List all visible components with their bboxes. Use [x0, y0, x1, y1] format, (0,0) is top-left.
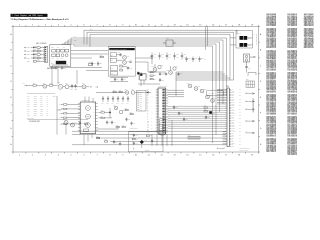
- choke 5501 black body: [240, 36, 251, 40]
- transistor 7602: [123, 56, 130, 60]
- capacitor 2406: [111, 121, 116, 125]
- svg-text:VDD: VDD: [27, 115, 30, 117]
- capacitor 2621: [185, 57, 190, 63]
- svg-text:CD DRIVE UNIT: CD DRIVE UNIT: [29, 121, 40, 123]
- svg-text:3520: 3520: [246, 79, 249, 81]
- signal name table: [27, 94, 56, 117]
- svg-text:5V: 5V: [47, 108, 49, 110]
- svg-text:B6: B6: [274, 113, 276, 115]
- svg-text:1: 1: [19, 25, 20, 27]
- svg-text:12: 12: [161, 25, 163, 27]
- svg-text:6603: 6603: [111, 73, 114, 75]
- parts index column 2: [287, 14, 297, 156]
- svg-text:C5: C5: [274, 151, 276, 153]
- svg-text:2302: 2302: [75, 89, 78, 91]
- wire: [138, 80, 160, 86]
- svg-text:RST: RST: [40, 100, 43, 102]
- svg-text:2626 71803: 2626 71803: [266, 151, 274, 153]
- transistor 7422: [131, 89, 135, 94]
- relay 1601 box: [163, 38, 176, 46]
- label bus signals: [74, 28, 93, 42]
- resistor 3423: [125, 108, 129, 111]
- wire bus top 3: [90, 34, 230, 80]
- capacitor 2611: [151, 53, 157, 60]
- svg-text:SCL: SCL: [40, 98, 43, 100]
- svg-text:KEY0: KEY0: [34, 95, 38, 97]
- svg-text:11: 11: [148, 25, 150, 27]
- resistor 3205: [27, 60, 45, 63]
- capacitor 2615: [177, 73, 182, 76]
- wire output standby: [135, 62, 148, 72]
- capacitor 2302: [74, 84, 77, 91]
- svg-text:+9V: +9V: [204, 59, 206, 61]
- wire bus mid: [176, 72, 234, 96]
- wire into driver top: [85, 97, 93, 103]
- svg-text:3125 95318: 3125 95318: [287, 69, 295, 71]
- wire: [50, 66, 102, 68]
- svg-text:KEY3: KEY3: [34, 102, 38, 104]
- resistor 3503: [150, 79, 156, 81]
- svg-text:TRK: TRK: [140, 94, 142, 96]
- capacitor 2622: [192, 57, 197, 63]
- svg-text:1504: 1504: [159, 117, 162, 119]
- transistor 7302: [57, 82, 62, 89]
- capacitor 2502: [159, 78, 164, 82]
- svg-text:P13: P13: [27, 110, 30, 112]
- svg-text:6: 6: [84, 25, 85, 27]
- capacitor 2222: [97, 62, 102, 67]
- svg-text:KEY1: KEY1: [34, 98, 38, 100]
- svg-text:STB: STB: [40, 106, 43, 108]
- svg-text:7304: 7304: [82, 83, 85, 85]
- svg-text:7612: 7612: [161, 64, 164, 66]
- wire driver outputs down: [84, 134, 92, 144]
- svg-text:STBY: STBY: [90, 28, 93, 30]
- wire: [57, 125, 80, 135]
- capacitor 3612: [181, 53, 187, 60]
- rectifier 6601: [110, 58, 116, 62]
- capacitor 2201: [51, 66, 57, 70]
- svg-text:16: 16: [212, 155, 214, 157]
- resistor 3302: [47, 83, 58, 86]
- diode 6221: [88, 61, 92, 65]
- capacitor 2202: [61, 66, 66, 70]
- line filter box: [236, 31, 253, 49]
- svg-text:7515: 7515: [214, 98, 217, 100]
- jack 1901: [244, 54, 254, 62]
- svg-text:7512: 7512: [198, 86, 201, 88]
- off-page arrow right: [250, 56, 256, 58]
- capacitor 2521: [173, 106, 178, 110]
- capacitor 2402: [106, 96, 109, 104]
- wire bus into pins: [213, 72, 227, 143]
- op-amp driver IC 7401: [78, 99, 98, 134]
- svg-text:G6: G6: [312, 47, 314, 49]
- transistor 7513: [200, 88, 207, 93]
- capacitor 2423: [125, 118, 130, 122]
- IC 7502 box: [138, 72, 148, 80]
- resistor network 3520: [246, 79, 254, 87]
- resistor 3451: [96, 136, 100, 139]
- resistor 3201: [37, 47, 45, 51]
- zener diode 6602: [129, 59, 132, 63]
- resistor 3452: [104, 139, 108, 142]
- diode 6203: [27, 51, 37, 56]
- svg-text:POWER CORD 220V: POWER CORD 220V: [255, 34, 257, 46]
- off-page arrow: [245, 108, 255, 111]
- wire: [57, 96, 61, 126]
- svg-text:15: 15: [199, 155, 201, 157]
- wire bottom bus: [72, 131, 226, 145]
- svg-text:7: 7: [96, 155, 97, 157]
- svg-text:CLK: CLK: [40, 102, 43, 104]
- transistor 7612: [158, 64, 164, 68]
- wire: [116, 55, 126, 67]
- resistor 3501: [150, 72, 156, 74]
- svg-text:6602: 6602: [129, 59, 132, 61]
- crystal box 1503: [207, 90, 224, 96]
- svg-text:2601: 2601: [118, 52, 121, 54]
- svg-text:19: 19: [251, 155, 253, 157]
- svg-text:2612: 2612: [161, 54, 164, 56]
- svg-text:6204: 6204: [27, 58, 30, 60]
- svg-text:12: 12: [161, 155, 163, 157]
- transistor 7432: [71, 122, 77, 127]
- capacitor 2522: [178, 112, 183, 116]
- wire: [248, 73, 256, 77]
- svg-text:3302: 3302: [49, 83, 52, 85]
- capacitor 2512: [205, 116, 210, 120]
- wire bus top 2: [87, 32, 234, 80]
- capacitor 2614: [163, 73, 168, 76]
- svg-text:4: 4: [58, 25, 59, 27]
- svg-text:MUT: MUT: [40, 110, 43, 112]
- wire: [134, 144, 142, 149]
- svg-text:5V: 5V: [47, 104, 49, 106]
- svg-text:9: 9: [122, 25, 123, 27]
- svg-text:play mode, disc 5": play mode, disc 5": [240, 150, 250, 152]
- svg-text:7602: 7602: [127, 56, 130, 58]
- resistor 3403: [60, 113, 81, 115]
- capacitor 2404: [126, 96, 129, 104]
- capacitor 2607: [121, 78, 126, 82]
- svg-text:2: 2: [32, 155, 33, 157]
- svg-text:18: 18: [238, 25, 240, 27]
- resistor 3422: [119, 89, 123, 92]
- svg-text:16: 16: [212, 25, 214, 27]
- transistor 7511: [187, 82, 192, 88]
- capacitor 2523: [183, 118, 188, 122]
- svg-text:F8: F8: [274, 47, 276, 49]
- svg-text:4: 4: [58, 155, 59, 157]
- resistor 3301: [33, 83, 43, 86]
- label input arrow: [23, 83, 28, 86]
- svg-text:MOT: MOT: [140, 98, 143, 100]
- wire: [71, 51, 109, 59]
- wire: [52, 66, 89, 87]
- svg-text:10: 10: [135, 25, 137, 27]
- wire: [230, 38, 253, 45]
- resistor 3421: [113, 89, 117, 92]
- svg-text:F2: F2: [274, 91, 276, 93]
- junction node: [109, 112, 111, 114]
- off-page arrow: [245, 119, 255, 122]
- capacitor 2424: [130, 122, 135, 126]
- capacitor 2301: [70, 84, 73, 91]
- svg-text:5577 39062: 5577 39062: [287, 113, 295, 115]
- transistor 7301: [43, 82, 47, 88]
- transistor 7611: [151, 66, 157, 71]
- svg-text:3: 3: [45, 25, 46, 27]
- svg-text:15: 15: [199, 25, 201, 27]
- svg-text:LED1: LED1: [34, 106, 37, 108]
- svg-text:18: 18: [238, 155, 240, 157]
- svg-text:7431: 7431: [62, 119, 65, 121]
- svg-text:7303: 7303: [65, 83, 68, 85]
- capacitor 2612: [158, 53, 164, 60]
- wire bus top 1: [84, 30, 237, 44]
- svg-text:3401: 3401: [60, 104, 63, 106]
- wire harness to connector: [168, 89, 227, 145]
- svg-text:13: 13: [173, 25, 175, 27]
- note under connector: [240, 147, 251, 152]
- svg-text:7.2 Key Diagrams CD-Mechanism: 7.2 Key Diagrams CD-Mechanism — Main Boa…: [11, 18, 70, 21]
- svg-text:6: 6: [84, 155, 85, 157]
- capacitor 2501: [159, 72, 164, 76]
- svg-text:3413: 3413: [122, 125, 125, 127]
- svg-text:F8: F8: [295, 25, 297, 27]
- polarized capacitor 2511: [209, 111, 215, 114]
- svg-text:LED3: LED3: [34, 110, 37, 112]
- diode 6204: [27, 55, 37, 60]
- capacitor 2613: [173, 53, 179, 60]
- svg-text:LRC: LRC: [40, 113, 43, 115]
- svg-text:P00: P00: [27, 95, 30, 97]
- svg-text:SEN: SEN: [40, 108, 43, 110]
- wire bus 8: [74, 45, 213, 72]
- label +B net: [90, 86, 99, 88]
- svg-text:7529 90625: 7529 90625: [287, 91, 295, 93]
- svg-text:0V: 0V: [47, 102, 49, 104]
- svg-text:KEY2: KEY2: [34, 100, 38, 102]
- svg-text:6601: 6601: [111, 60, 114, 62]
- svg-text:DEM: DEM: [34, 113, 37, 115]
- svg-text:7432: 7432: [74, 122, 77, 124]
- IC 7201 interface box: [50, 45, 71, 67]
- resistor 3221: [100, 54, 104, 57]
- wire: [27, 85, 33, 87]
- svg-text:9: 9: [122, 155, 123, 157]
- svg-text:E5: E5: [274, 69, 276, 71]
- connector 1201 keyboard: [43, 46, 48, 62]
- svg-text:17: 17: [225, 25, 227, 27]
- svg-text:G9: G9: [312, 25, 314, 27]
- transistor 7304: [82, 83, 86, 89]
- capacitor 2401: [101, 96, 104, 104]
- input arrows keyboard rows: [24, 47, 26, 59]
- svg-text:13: 13: [173, 155, 175, 157]
- svg-text:7511: 7511: [187, 82, 190, 84]
- label mains: [237, 32, 255, 37]
- svg-text:and: and: [29, 15, 32, 17]
- svg-text:6202: 6202: [27, 51, 30, 53]
- svg-text:G9: G9: [295, 135, 297, 137]
- connector 1504: [159, 117, 165, 135]
- resistor 3502: [150, 75, 156, 77]
- svg-text:17: 17: [225, 155, 227, 157]
- svg-text:3404: 3404: [60, 117, 63, 119]
- resistor 3601: [120, 64, 123, 67]
- resistor 3512: [204, 109, 208, 112]
- capacitor 2606: [114, 78, 119, 82]
- svg-text:HC04: HC04: [63, 47, 66, 49]
- svg-text:5: 5: [71, 25, 72, 27]
- transistor 7421: [124, 89, 128, 94]
- svg-text:INT: INT: [27, 113, 29, 115]
- svg-text:3601: 3601: [120, 64, 123, 66]
- polarized capacitor 2605: [140, 74, 145, 77]
- svg-text:G1: G1: [274, 135, 276, 137]
- parts index column 1: [266, 14, 276, 153]
- svg-text:6203: 6203: [27, 54, 30, 56]
- wire bus 6: [65, 42, 220, 74]
- svg-text:3: 3: [45, 155, 46, 157]
- svg-text:0V: 0V: [47, 106, 49, 108]
- svg-text:+8V: +8V: [90, 87, 92, 89]
- transistor 7303: [65, 83, 69, 89]
- label keyboard section: [36, 42, 46, 45]
- svg-text:5V: 5V: [47, 95, 49, 97]
- svg-text:5V: 5V: [47, 100, 49, 102]
- svg-text:3206: 3206: [27, 61, 30, 63]
- svg-text:4822 290: 4822 290: [145, 150, 150, 152]
- svg-text:CLK: CLK: [140, 109, 142, 111]
- svg-text:7201: 7201: [51, 47, 54, 49]
- svg-text:7301: 7301: [43, 82, 46, 84]
- svg-text:7513: 7513: [204, 88, 207, 90]
- diode 6201: [27, 44, 37, 49]
- svg-text:7601: 7601: [111, 68, 114, 70]
- svg-text:P01: P01: [27, 98, 30, 100]
- title block subtitle: [11, 18, 70, 21]
- transistor 7431: [62, 119, 68, 125]
- svg-text:3410: 3410: [101, 110, 104, 112]
- servo IC pin labels: [147, 89, 149, 134]
- svg-text:7614: 7614: [176, 66, 179, 68]
- svg-text:1901: 1901: [251, 57, 254, 59]
- resistor 3412: [116, 125, 120, 128]
- transistor 7514: [206, 95, 213, 99]
- svg-text:SLD: SLD: [140, 96, 142, 98]
- svg-text:REM: REM: [53, 95, 56, 97]
- wire: [96, 92, 145, 94]
- resistor 3401: [60, 104, 81, 106]
- svg-text:3611: 3611: [169, 54, 172, 56]
- resistor 3511: [204, 105, 208, 108]
- resistor 3404: [60, 117, 81, 119]
- capacitor 3407: [121, 96, 124, 104]
- transformer 5601: [110, 53, 116, 57]
- ground symbol: [119, 142, 121, 146]
- svg-text:8: 8: [109, 25, 110, 27]
- svg-text:5601: 5601: [111, 55, 114, 57]
- svg-text:2621: 2621: [188, 58, 191, 60]
- power supply box outline: [108, 47, 135, 76]
- svg-text:PWB: PWB: [32, 15, 35, 17]
- wire bus 4: [71, 38, 227, 78]
- resistor 3441: [132, 139, 138, 141]
- connector 1402 flex: [137, 91, 147, 112]
- border frame: [13, 27, 259, 153]
- svg-text:P03: P03: [27, 102, 30, 104]
- svg-text:P02: P02: [27, 100, 30, 102]
- svg-text:7502: 7502: [140, 72, 143, 74]
- off-page arrow: [245, 100, 255, 103]
- svg-text:0V: 0V: [47, 110, 49, 112]
- svg-text:14: 14: [186, 25, 188, 27]
- svg-text:3301: 3301: [33, 83, 36, 85]
- svg-text:EFM: EFM: [140, 105, 142, 107]
- svg-text:3405: 3405: [60, 123, 63, 125]
- svg-text:7613: 7613: [166, 69, 169, 71]
- svg-text:11: 11: [148, 155, 150, 157]
- capacitor 2442: [133, 134, 138, 138]
- resistor 3204: [37, 57, 45, 61]
- svg-text:7611: 7611: [151, 66, 154, 68]
- diode 6421: [145, 90, 151, 94]
- svg-text:LED0: LED0: [34, 104, 37, 106]
- resistor 3424: [130, 112, 134, 115]
- transistor 7423: [113, 104, 118, 109]
- svg-text:H5: H5: [295, 69, 297, 71]
- resistor 3431: [84, 122, 88, 125]
- wire bus 5: [68, 40, 223, 76]
- connector 1501 pin rows: [226, 86, 242, 148]
- diode 6202: [27, 48, 37, 53]
- wire mains drop: [206, 27, 208, 51]
- svg-text:2: 2: [32, 25, 33, 27]
- transistor 7442 dark: [140, 140, 148, 144]
- svg-text:0V: 0V: [47, 115, 49, 117]
- wire: [152, 120, 172, 146]
- svg-text:10: 10: [135, 155, 137, 157]
- svg-text:14: 14: [186, 155, 188, 157]
- svg-text:3602: 3602: [120, 68, 123, 70]
- svg-text:1601: 1601: [166, 38, 169, 40]
- svg-text:GND: GND: [34, 115, 37, 117]
- svg-text:7: 7: [96, 25, 97, 27]
- capacitor 2431: [79, 121, 84, 125]
- transistor 7613: [166, 69, 172, 74]
- svg-text:F8: F8: [295, 154, 297, 156]
- transistor 7512: [194, 86, 201, 91]
- transistor 7424: [119, 109, 125, 113]
- label drive unit caption: [27, 118, 89, 123]
- choke 5502 black body: [240, 43, 251, 47]
- svg-text:B3: B3: [274, 25, 276, 27]
- resistor 3402: [60, 108, 81, 110]
- wire output +5V: [135, 58, 152, 65]
- svg-text:2622: 2622: [194, 58, 197, 60]
- IC 7501 servo processor: [151, 85, 170, 134]
- capacitor 2221: [91, 62, 96, 67]
- svg-text:7595 38635: 7595 38635: [287, 154, 295, 156]
- laser supply box: [129, 127, 164, 152]
- diode 6603: [110, 71, 118, 75]
- capacitor 2601: [118, 52, 122, 57]
- svg-text:LED2: LED2: [34, 108, 37, 110]
- svg-text:6661 65521: 6661 65521: [304, 47, 312, 49]
